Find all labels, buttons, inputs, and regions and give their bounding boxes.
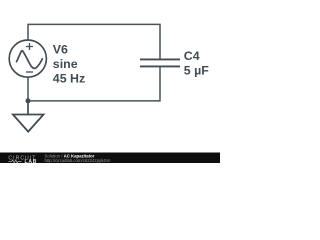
svg-text:V6: V6 [53,43,68,57]
wire: bottom rail from node to C4 bottom lead [28,67,160,101]
svg-text:sine: sine [53,57,78,71]
CircuitLab logo [8,156,37,165]
voltage source V6 (sine source symbol) [9,40,46,77]
svg-text:http://circuitlab.com/c6224zpy: http://circuitlab.com/c6224zpyk4nn [45,158,112,163]
svg-text:5 µF: 5 µF [184,63,209,77]
wire: V6 bottom lead down to node [27,77,29,101]
wire: node down to ground [27,101,29,115]
node: junction dot joining V6, bottom rail and ground [26,98,31,103]
svg-text:C4: C4 [184,49,200,63]
svg-text:45 Hz: 45 Hz [53,71,85,85]
ground [13,115,44,132]
wire: V6 top lead up and top rail across to C4 top lead [28,24,160,58]
svg-text:LAB: LAB [25,159,38,165]
watermark bar [0,153,220,164]
capacitor C4 (parallel plates) [140,59,180,66]
